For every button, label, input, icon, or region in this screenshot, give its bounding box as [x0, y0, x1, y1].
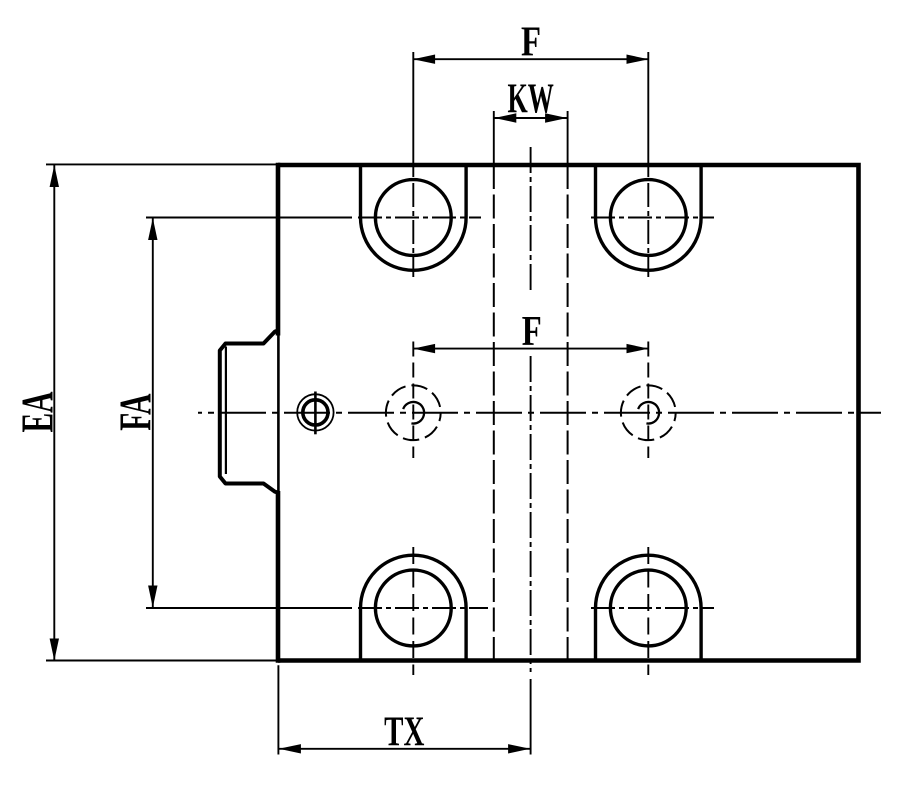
svg-text:FA: FA	[111, 393, 161, 431]
dimension KW: line	[494, 117, 568, 119]
side tab inner face line	[225, 347, 227, 475]
dimension TX: line	[278, 748, 530, 750]
arrow TX right	[508, 744, 530, 753]
mounting hole circle top-left	[375, 180, 451, 256]
dimension F top: line	[413, 58, 649, 60]
dimension TX: extension left	[277, 665, 279, 754]
svg-text:KW: KW	[508, 75, 554, 122]
part left edge middle thin segment	[277, 336, 280, 492]
arrow FA top	[148, 218, 157, 240]
svg-text:F: F	[522, 308, 542, 355]
vertical rail centerline extension to TX	[530, 679, 532, 755]
mid hole centerline vertical left	[412, 342, 414, 459]
top-left hole centerline vertical	[412, 52, 414, 177]
arrow EA bottom	[50, 639, 59, 661]
part left edge lower segment	[276, 491, 281, 663]
mid hole dashed circle left	[386, 385, 441, 440]
mounting hole circle top-right	[610, 180, 686, 256]
mounting hole circle bottom-left	[375, 570, 451, 646]
dimension KW: extension right	[567, 111, 569, 164]
dimension EA: extension bottom	[46, 660, 277, 662]
bottom-left hole centerline horizontal (FA extension)	[146, 607, 352, 609]
mounting hole pocket bottom-left	[361, 555, 467, 660]
bottom-left hole centerline vertical	[412, 547, 414, 675]
mid hole centerline vertical right	[647, 342, 649, 459]
mounting hole circle bottom-right	[610, 570, 686, 646]
part body outline (top, right, bottom edges)	[278, 165, 859, 661]
grease fitting vertical center tick	[314, 392, 317, 435]
side tab boss outline	[220, 331, 278, 493]
arrow EA top	[50, 165, 59, 187]
arrow TX left	[279, 744, 301, 753]
arrow FA bottom	[148, 586, 157, 608]
vertical rail centerline upper segment	[530, 147, 532, 294]
top-right hole centerline horizontal	[591, 217, 714, 219]
arrow F mid right	[627, 344, 649, 353]
mid hole dashed circle right	[621, 385, 676, 440]
dimension EA: extension top	[46, 163, 277, 165]
dimension EA: line	[53, 165, 55, 661]
arrow KW right	[545, 113, 567, 122]
bottom-right hole centerline horizontal	[591, 607, 714, 609]
mid thread hole arc left	[403, 402, 424, 424]
grease fitting outer thin circle	[297, 394, 333, 430]
horizontal main centerline	[198, 412, 881, 414]
dimension KW: extension left	[493, 111, 495, 164]
hidden slot line right (KW)	[567, 165, 569, 661]
arrow F top left	[413, 55, 435, 64]
bottom-right hole centerline vertical	[647, 547, 649, 675]
mounting hole pocket bottom-right	[596, 555, 702, 660]
svg-text:TX: TX	[384, 708, 424, 755]
dimension F mid: line	[413, 348, 649, 350]
top-left hole centerline horizontal (FA extension)	[146, 217, 352, 219]
arrow F mid left	[413, 344, 435, 353]
top-right hole centerline vertical	[647, 52, 649, 177]
mid thread hole arc right	[638, 402, 659, 424]
part left edge upper segment	[276, 163, 281, 336]
arrow KW left	[494, 113, 516, 122]
dimension FA: line	[152, 218, 154, 609]
svg-text:F: F	[521, 19, 541, 66]
grease fitting inner circle	[303, 400, 328, 425]
hidden slot line left (KW)	[493, 165, 495, 661]
mounting hole pocket top-left	[361, 165, 467, 270]
arrow F top right	[627, 55, 649, 64]
svg-text:EA: EA	[13, 391, 63, 432]
mounting hole pocket top-right	[596, 165, 702, 270]
vertical rail centerline lower segment	[530, 356, 532, 672]
